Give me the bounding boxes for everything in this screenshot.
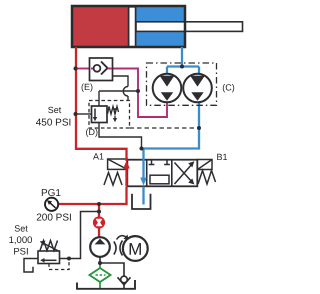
svg-text:B1: B1 <box>216 152 227 162</box>
svg-text:450 PSI: 450 PSI <box>36 118 72 129</box>
svg-text:(E): (E) <box>81 82 93 92</box>
svg-text:M: M <box>128 240 142 259</box>
svg-text:(D): (D) <box>86 127 99 137</box>
svg-text:PG1: PG1 <box>41 188 61 199</box>
svg-text:A1: A1 <box>93 151 104 161</box>
svg-text:1,000: 1,000 <box>9 235 33 246</box>
svg-text:Set: Set <box>48 105 62 115</box>
svg-text:200 PSI: 200 PSI <box>36 213 72 224</box>
svg-text:PSI: PSI <box>13 247 28 258</box>
svg-text:(C): (C) <box>222 83 235 93</box>
svg-text:Set: Set <box>14 224 28 234</box>
